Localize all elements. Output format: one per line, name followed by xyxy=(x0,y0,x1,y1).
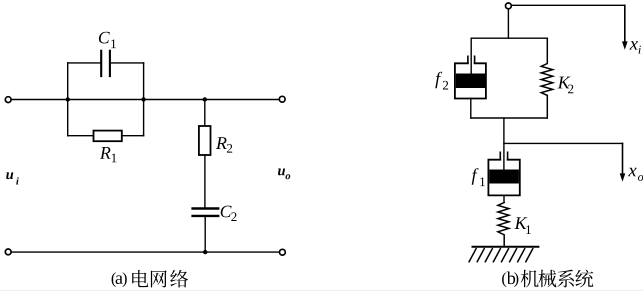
input terminal top-left xyxy=(5,97,11,103)
label K2 xyxy=(558,77,574,94)
output terminal bottom-right xyxy=(280,249,286,255)
damper f1 collar xyxy=(500,152,507,159)
node junction right of parallel block xyxy=(141,97,145,101)
label f1 xyxy=(472,168,485,186)
wire R2 to C2 xyxy=(204,155,206,207)
label xo xyxy=(628,168,643,181)
wire left branch of C1/R1 parallel block xyxy=(67,63,69,136)
caption char dian xyxy=(132,270,148,287)
damper f2 piston rod xyxy=(470,38,472,75)
caption char xie xyxy=(539,270,557,288)
input terminal bottom-left xyxy=(5,249,11,255)
label C1 xyxy=(99,32,116,48)
label caption (a) xyxy=(112,272,127,287)
label ui xyxy=(6,172,19,184)
scan artifact bottom edge xyxy=(0,289,643,291)
wire bottom branch to R1 xyxy=(68,135,144,137)
label xi xyxy=(630,41,641,53)
arrow xi xyxy=(624,5,626,42)
wire C2 bottom lead xyxy=(204,217,206,252)
wire R2 top lead xyxy=(204,99,206,126)
wire stub from terminal xyxy=(507,9,509,38)
ground line xyxy=(473,246,539,248)
wire bottom rail xyxy=(11,251,279,253)
damper f2 cylinder xyxy=(455,63,486,98)
damper f1 piston rod xyxy=(503,118,505,170)
wire top bar of parallel block xyxy=(471,37,547,39)
wire bottom bar of parallel block xyxy=(471,117,548,119)
label R1 xyxy=(100,147,117,162)
label K1 xyxy=(514,217,530,234)
caption char luo xyxy=(170,270,188,288)
resistor R1 xyxy=(94,131,122,142)
caption char xi2 xyxy=(557,270,574,288)
caption char wang xyxy=(151,270,167,287)
damper f2 piston xyxy=(456,74,485,89)
wire right branch of C1/R1 parallel block xyxy=(143,63,145,136)
spring K2 xyxy=(541,38,553,118)
label caption (b) xyxy=(502,272,518,287)
wire top to xi arrow xyxy=(511,4,624,6)
spring K1 xyxy=(498,203,509,247)
label f2 xyxy=(435,72,448,90)
capacitor C2 xyxy=(193,209,219,216)
resistor R2 xyxy=(199,126,211,155)
wire top rail xyxy=(11,99,279,101)
node junction at C2 bottom xyxy=(203,250,207,254)
damper f2 collar xyxy=(468,56,475,62)
caption char ji xyxy=(521,270,539,288)
damper f1 piston xyxy=(489,170,519,184)
node junction left of parallel block xyxy=(66,97,70,101)
input terminal circle xyxy=(506,3,512,9)
wire f1 bottom lead xyxy=(503,195,505,202)
damper f1 cylinder xyxy=(488,160,519,196)
output terminal top-right xyxy=(279,96,285,102)
capacitor C1 xyxy=(101,51,110,76)
caption char tong xyxy=(575,270,593,288)
node junction at R2 top xyxy=(203,97,207,101)
wire top branch to C1 xyxy=(68,62,144,64)
wire f2 bottom lead xyxy=(470,99,472,119)
label R2 xyxy=(216,137,232,152)
arrow xo xyxy=(622,143,624,174)
label uo xyxy=(278,169,290,180)
label C2 xyxy=(221,206,237,221)
wire to xo arrow xyxy=(504,142,623,144)
ground hatching xyxy=(469,249,533,262)
